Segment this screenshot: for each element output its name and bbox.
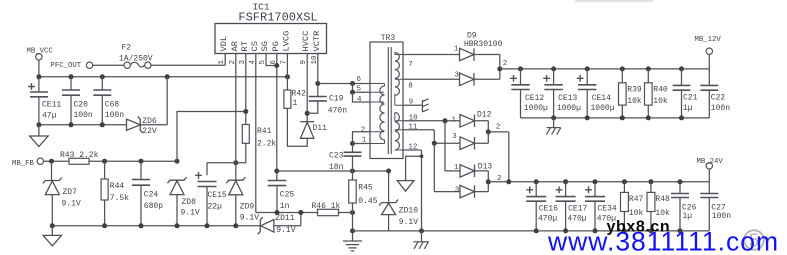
junction gnd bus at C68: [100, 122, 105, 127]
wire IC1 pin7 LVCG line: [286, 54, 288, 91]
wire C25 bottom lead: [276, 186, 278, 213]
svg-text:2: 2: [503, 60, 508, 68]
wire C27 bottom lead: [708, 198, 710, 231]
svg-text:9.1V: 9.1V: [181, 208, 200, 217]
wire IC1 pin2 AR line: [235, 54, 237, 163]
junction 12V return at 622: [620, 115, 625, 120]
svg-text:R44: R44: [110, 182, 125, 191]
svg-text:R46 1k: R46 1k: [312, 202, 341, 211]
wire C21 top lead: [681, 69, 683, 86]
plus sign of CE16: [526, 186, 533, 193]
chassis ground 12V return chassis ground: [546, 128, 560, 135]
svg-text:VDL: VDL: [219, 36, 229, 52]
wire TR3 pin7 to D9: [403, 54, 460, 56]
resistor R42 body: [284, 90, 291, 108]
resistor R48 body: [647, 192, 655, 211]
circled number 5: [744, 230, 764, 250]
svg-text:1: 1: [454, 45, 459, 53]
svg-text:8: 8: [408, 83, 413, 91]
wire ZD11 anode riser: [274, 213, 301, 226]
ground symbol (open triangle) feedback ground: [43, 235, 61, 246]
svg-text:MB_12V: MB_12V: [695, 36, 722, 44]
junction RT top node: [243, 109, 248, 114]
wire fuse F2 to IC1 pin1 VDL: [151, 54, 225, 66]
wire 12V rail: [500, 68, 710, 70]
junction 12V rail start: [497, 66, 502, 71]
wire TR3 pin4 tie: [353, 92, 371, 102]
svg-text:CE14: CE14: [592, 94, 611, 103]
wire C19 bottom to HVCC: [307, 101, 318, 113]
TR3 primary internal stubs: [370, 84, 385, 144]
junction D13 output node: [486, 179, 491, 184]
svg-text:47µ: 47µ: [42, 112, 57, 121]
svg-text:1000µ: 1000µ: [524, 104, 548, 113]
svg-text:CE16: CE16: [539, 205, 558, 214]
wire ZD9 top lead: [235, 163, 237, 180]
wire 12V return rail: [521, 117, 710, 119]
TR3 secondary winding lower: [395, 113, 400, 151]
svg-text:1µ: 1µ: [683, 212, 693, 221]
diode D11 symbol (vertical, pointing up): [300, 122, 314, 139]
wire R40 bottom lead: [647, 105, 649, 118]
wire SG sense bus: [277, 170, 389, 172]
resistor R43 body: [69, 158, 89, 164]
wire CE12 top lead: [520, 69, 522, 85]
TR3 primary winding: [380, 86, 385, 140]
wire R45 bottom lead: [352, 203, 354, 241]
plus sign of CE13: [543, 75, 550, 82]
wire ZD10 bottom lead: [388, 215, 390, 231]
chassis ground at TR3 pin9: [422, 99, 428, 112]
junction D12 output node: [486, 129, 491, 134]
junction FB node at ZD7: [49, 159, 54, 164]
wire IC1 pin4 CS line: [256, 54, 277, 213]
svg-text:CE34: CE34: [598, 205, 617, 214]
wire C22 top lead: [708, 69, 710, 86]
capacitor CE34 plates: [585, 197, 605, 202]
junction 12V return at 682: [679, 115, 684, 120]
wire pin10 branch to D13 upper: [445, 121, 460, 171]
capacitor C21 plates: [673, 85, 691, 90]
wire C26 top lead: [679, 182, 681, 194]
svg-text:100n: 100n: [74, 111, 93, 120]
wire CE13 bottom lead: [553, 90, 555, 118]
svg-text:C19: C19: [329, 95, 344, 104]
ground symbol (open triangle) primary ground: [30, 136, 48, 147]
svg-text:ZD7: ZD7: [63, 188, 78, 197]
junction R45 node with R46: [350, 210, 355, 215]
junction 24V rail at R48: [648, 179, 653, 184]
wire C25 top lead: [276, 171, 278, 181]
junction fb gnd at C24: [139, 223, 144, 228]
wire R48 top lead: [650, 182, 652, 193]
zener diode ZD8 symbol: [168, 177, 187, 194]
junction 24V return at 624: [622, 228, 627, 233]
svg-text:100n: 100n: [105, 111, 124, 120]
wire TR3 pin1 wire: [353, 143, 371, 145]
capacitor CE15 plates: [198, 182, 217, 187]
svg-text:680p: 680p: [144, 202, 163, 211]
junction pin11 node: [432, 141, 437, 146]
plus sign of CE11: [28, 83, 35, 90]
junction 24V return at 566: [563, 228, 568, 233]
junction sense bus at C23: [350, 169, 355, 174]
svg-text:CE12: CE12: [525, 94, 544, 103]
svg-text:1: 1: [454, 164, 459, 172]
faint artifact line at top edge: [575, 0, 653, 2]
capacitor C19 plates: [309, 97, 327, 101]
diode D13 lower symbol: [460, 185, 475, 198]
svg-text:TR3: TR3: [381, 34, 396, 43]
capacitor C23 plates: [344, 152, 362, 156]
junction 24V return at 536: [534, 228, 539, 233]
wire feedback ground bus: [52, 225, 260, 227]
op IC1 FSFR1700XSL body: [215, 24, 327, 54]
junction 12V rail at CE14: [585, 66, 590, 71]
wire R47 bottom lead: [623, 212, 625, 231]
junction sec return at pin12: [419, 228, 424, 233]
svg-text:9.1V: 9.1V: [276, 226, 295, 235]
svg-text:2.2k: 2.2k: [257, 139, 276, 148]
svg-text:10k: 10k: [627, 97, 642, 106]
svg-text:3: 3: [455, 186, 460, 194]
wire MB_12V riser: [708, 54, 710, 69]
svg-text:FSFR1700XSL: FSFR1700XSL: [238, 11, 317, 25]
wire CE16 bottom lead: [535, 201, 537, 231]
wire CE14 bottom lead: [586, 90, 588, 118]
junction 12V rail at C21: [679, 66, 684, 71]
capacitor CE11 plates: [30, 92, 48, 97]
svg-text:C24: C24: [144, 191, 159, 200]
wire C27 top lead: [708, 182, 710, 194]
wire TR3 pin10 to D12: [403, 120, 460, 122]
wire secondary return bus: [353, 230, 710, 232]
junction gnd bus at CE11: [36, 122, 41, 127]
capacitor C20 plates: [62, 90, 80, 95]
capacitor C27 plates: [700, 194, 718, 198]
svg-text:ZD8: ZD8: [182, 198, 197, 207]
svg-text:4: 4: [357, 96, 362, 104]
junction 24V rail at CE16: [534, 179, 539, 184]
wire CE17 top lead: [565, 182, 567, 197]
svg-text:0.45: 0.45: [358, 197, 377, 206]
junction gnd bus at C20: [69, 122, 74, 127]
svg-text:R48: R48: [655, 195, 670, 204]
svg-text:1: 1: [362, 136, 367, 144]
junction 24V rail at C26: [678, 179, 683, 184]
wire R39 top lead: [621, 69, 623, 83]
junction R45 gnd node: [350, 228, 355, 233]
junction 24V rail at CE17: [563, 179, 568, 184]
junction pin12 triangle tap: [420, 154, 424, 158]
svg-text:9.1V: 9.1V: [62, 200, 81, 209]
wire IC1 pin9 HVCC line: [306, 54, 308, 122]
zener diode ZD7 symbol: [43, 178, 62, 195]
svg-text:9.1V: 9.1V: [240, 214, 259, 223]
junction SG joins PG: [274, 63, 279, 68]
svg-text:CE17: CE17: [568, 205, 587, 214]
svg-text:R41: R41: [257, 127, 272, 136]
svg-text:2: 2: [361, 126, 366, 134]
ground symbol (open triangle) secondary floating ground: [397, 181, 414, 192]
wire R44 top lead: [104, 161, 106, 179]
wire CS sense wire: [277, 212, 318, 214]
capacitor C26 plates: [671, 194, 689, 198]
svg-text:470n: 470n: [328, 107, 347, 116]
junction VCC bus at LVCG pin7: [285, 74, 290, 79]
junction 24V return at 595: [593, 228, 598, 233]
terminal PFC_OUT: [86, 62, 92, 68]
svg-text:C68: C68: [105, 101, 120, 110]
wire chassis stub: [421, 231, 423, 242]
svg-text:100n: 100n: [711, 104, 730, 113]
junction 12V return at 554: [551, 115, 556, 120]
svg-text:22µ: 22µ: [208, 202, 223, 211]
junction fb gnd at ZD8: [175, 223, 180, 228]
wire D12 output down: [488, 132, 509, 182]
junction 12V rail at CE12: [518, 66, 523, 71]
diode D13 upper symbol: [460, 165, 475, 178]
capacitor CE17 plates: [556, 197, 576, 202]
zener diode ZD6 symbol (horizontal): [127, 117, 143, 134]
svg-text:C22: C22: [711, 94, 726, 103]
wire R42 bottom to D11 anode: [287, 108, 307, 146]
svg-text:PFC_OUT: PFC_OUT: [51, 62, 82, 70]
wire ZD6 to VCC bus riser: [140, 77, 167, 125]
svg-text:6: 6: [357, 76, 362, 84]
wire IC1 pin10 VCTR line: [317, 54, 319, 97]
fuse F2: [124, 62, 151, 68]
svg-text:R39: R39: [627, 86, 642, 95]
terminal MB_VCC: [36, 54, 42, 60]
junction HVCC node with C19 return: [305, 111, 310, 116]
resistor R46 body: [318, 209, 339, 215]
terminal MB_FB: [37, 158, 43, 164]
resistor R41 body: [242, 125, 249, 144]
svg-text:MB_24V: MB_24V: [697, 158, 724, 166]
resistor R45 body: [349, 180, 357, 203]
plus sign of CE14: [577, 75, 584, 82]
svg-text:D12: D12: [477, 110, 492, 119]
wire CE15 tie wire: [207, 163, 236, 176]
wire triangle branch: [406, 156, 422, 180]
wire C26 bottom lead: [679, 198, 681, 231]
wire IC1 pin5 SG bend: [266, 54, 277, 66]
wire C68 bottom lead: [101, 95, 103, 125]
junction 24V rail at R47: [622, 179, 627, 184]
junction sense bus at ZD10: [386, 169, 391, 174]
svg-text:RT: RT: [240, 41, 250, 51]
wire D12 cathode join: [475, 121, 489, 143]
junction CS wire at C25: [275, 210, 280, 215]
zener diode ZD11 symbol (horizontal, cathode left): [258, 217, 274, 234]
svg-text:1A/250V: 1A/250V: [119, 55, 153, 64]
junction 24V return at 651: [648, 228, 653, 233]
wire TR3 pin5 tie: [353, 84, 371, 93]
junction tie at TR3 pin6 wire: [350, 81, 355, 86]
svg-text:CE15: CE15: [208, 191, 227, 200]
plus sign of CE12: [510, 75, 517, 82]
wire C20 bottom lead: [70, 95, 72, 125]
svg-text:HBR30100: HBR30100: [464, 40, 503, 49]
svg-text:470µ: 470µ: [567, 214, 586, 223]
wire IC1 pin6 PG line: [276, 54, 278, 172]
svg-text:D11: D11: [313, 124, 328, 133]
diode D12 lower symbol: [460, 137, 475, 150]
svg-text:CS: CS: [250, 41, 260, 51]
svg-text:470µ: 470µ: [538, 214, 557, 223]
svg-text:22V: 22V: [142, 127, 157, 136]
svg-text:MB_FB: MB_FB: [12, 160, 35, 168]
wire TR3 pin12 wire: [403, 150, 422, 231]
resistor R39 body: [619, 83, 627, 105]
svg-text:R47: R47: [629, 195, 644, 204]
resistor R47 body: [621, 192, 629, 211]
wire R48 bottom lead: [650, 212, 652, 231]
wire IC1 pin3 RT line upper: [245, 54, 247, 125]
svg-text:10k: 10k: [629, 209, 644, 218]
svg-text:VCTR: VCTR: [312, 31, 322, 52]
svg-text:CE11: CE11: [42, 101, 61, 110]
svg-text:1000µ: 1000µ: [591, 104, 615, 113]
svg-text:1: 1: [293, 99, 298, 108]
wire CE11 bottom lead: [38, 97, 40, 125]
chassis ground secondary chassis ground: [413, 242, 429, 249]
svg-text:1000µ: 1000µ: [557, 104, 581, 113]
diode D9 upper symbol: [460, 48, 475, 61]
svg-text:10k: 10k: [655, 209, 670, 218]
zener diode ZD10 symbol: [379, 200, 398, 215]
svg-text:ZD10: ZD10: [399, 207, 418, 216]
wire primary ground bus: [39, 124, 127, 126]
svg-text:D13: D13: [478, 163, 493, 172]
junction VCC bus at C68: [100, 74, 105, 79]
junction 12V rail at R40: [646, 66, 651, 71]
svg-text:1µ: 1µ: [683, 104, 693, 113]
wire D9 cathode join: [474, 55, 500, 80]
wire CE11 top lead: [38, 77, 40, 92]
wire C22 bottom lead: [708, 90, 710, 118]
wire MB_VCC to VCC bus: [38, 60, 40, 77]
wire 24V rail: [488, 181, 709, 183]
wire 12V return chassis stub: [553, 118, 555, 128]
resistor R40 body: [645, 83, 653, 105]
junction 24V rail at D12 join: [506, 179, 511, 184]
svg-text:100n: 100n: [712, 212, 731, 221]
capacitor CE14 plates: [578, 85, 596, 90]
wire CE17 bottom lead: [565, 201, 567, 231]
junction tie at TR3 pin5 wire: [350, 90, 355, 95]
junction fb gnd at CE15: [205, 223, 210, 228]
svg-text:7: 7: [408, 61, 413, 69]
junction 12V rail at R39: [620, 66, 625, 71]
svg-text:R43 2.2k: R43 2.2k: [60, 151, 99, 160]
wire R41 bottom bend to AR node: [236, 143, 246, 163]
wire R39 bottom lead: [621, 105, 623, 118]
capacitor C24 plates: [132, 180, 150, 186]
plus sign of CE17: [556, 186, 563, 193]
svg-text:HVCC: HVCC: [301, 31, 311, 52]
wire gnd stub below CE11: [38, 125, 40, 136]
svg-text:5: 5: [357, 86, 362, 94]
svg-text:1: 1: [452, 117, 457, 125]
wire C24 top lead: [140, 161, 142, 179]
junction VCTR node: [315, 81, 320, 86]
junction 12V rail at CE13: [551, 66, 556, 71]
svg-text:R45: R45: [358, 184, 373, 193]
diode D12 upper symbol: [460, 115, 475, 128]
wire ZD7 top lead: [51, 161, 53, 180]
wire ZD8 bottom lead: [176, 195, 178, 226]
plus sign of CE15: [195, 172, 202, 179]
wire VCC bus: [39, 76, 288, 78]
svg-text:R40: R40: [653, 86, 668, 95]
wire ZD7 bottom lead: [51, 195, 53, 226]
svg-text:D9: D9: [467, 31, 477, 40]
wire R43 to FB bus: [89, 160, 177, 162]
zener diode ZD9 symbol: [226, 177, 245, 195]
svg-text:LVCG: LVCG: [281, 31, 291, 52]
wire MB_FB to R43: [43, 160, 69, 162]
wire C20 top lead: [70, 77, 72, 90]
wire C23 bottom lead: [352, 156, 354, 171]
wire CE15 bottom lead: [206, 187, 208, 226]
wire R44 bottom lead: [104, 200, 106, 226]
junction fb gnd at ZD9: [233, 223, 238, 228]
svg-text:PG: PG: [271, 41, 281, 51]
terminal MB_12V: [706, 48, 712, 54]
junction pin10 branch: [443, 118, 448, 123]
svg-text:C25: C25: [280, 191, 295, 200]
resistor R44 body: [101, 179, 108, 200]
svg-text:ZD11: ZD11: [275, 214, 294, 223]
wire CE34 top lead: [594, 182, 596, 197]
svg-text:C20: C20: [74, 101, 89, 110]
svg-text:ZD9: ZD9: [240, 203, 255, 212]
junction FB bus at C24: [139, 159, 144, 164]
capacitor CE13 plates: [544, 85, 562, 90]
wire R45 top lead: [352, 171, 354, 180]
wire PFC_OUT to fuse F2: [93, 64, 125, 66]
capacitor CE16 plates: [526, 197, 546, 202]
wire C21 bottom lead: [681, 90, 683, 118]
diode D9 lower symbol: [460, 73, 475, 86]
wire ZD8 top riser to RT: [177, 112, 246, 162]
junction VCC bus at MB_VCC: [36, 74, 41, 79]
wire TR3 pin11 wire: [403, 130, 460, 192]
wire CE12 bottom lead: [520, 90, 522, 118]
transformer TR3 body: [370, 42, 403, 159]
svg-text:CE13: CE13: [558, 94, 577, 103]
wire TR3 pin8 to D9: [403, 78, 460, 80]
wire R47 top lead: [623, 182, 625, 193]
svg-text:9.1V: 9.1V: [399, 218, 418, 227]
junction FB bus at ZD8: [175, 159, 180, 164]
wire C24 bottom lead: [140, 185, 142, 226]
svg-text:11: 11: [408, 124, 418, 132]
svg-text:7.5k: 7.5k: [110, 194, 129, 203]
plus sign of CE34: [585, 186, 592, 193]
wire CE13 top lead: [553, 69, 555, 85]
wire CE14 top lead: [586, 69, 588, 85]
junction PG sense node: [274, 169, 279, 174]
wire R46 to R45 column: [339, 212, 353, 214]
capacitor C25 plates: [268, 181, 287, 186]
wire C68 top lead: [101, 77, 103, 90]
wire R40 top lead: [647, 69, 649, 83]
svg-text:SG: SG: [260, 41, 270, 51]
svg-text:1n: 1n: [280, 202, 290, 211]
